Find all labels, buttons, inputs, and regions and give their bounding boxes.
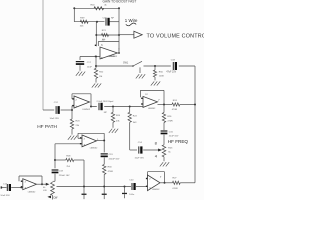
- svg-text:100n: 100n: [129, 194, 135, 196]
- svg-text:22uF 16V: 22uF 16V: [169, 136, 179, 138]
- svg-text:HF FREQ: HF FREQ: [168, 139, 189, 144]
- svg-text:1 Wire: 1 Wire: [125, 18, 138, 23]
- svg-text:LM4562: LM4562: [109, 56, 117, 58]
- svg-text:LM4562: LM4562: [148, 108, 156, 110]
- svg-text:10uF 35V: 10uF 35V: [50, 118, 60, 120]
- svg-text:470R: 470R: [172, 109, 178, 111]
- svg-text:LM4562: LM4562: [28, 192, 36, 194]
- svg-text:HF PATH: HF PATH: [37, 124, 57, 130]
- svg-text:220uF 16V: 220uF 16V: [59, 175, 70, 177]
- svg-text:LM4562: LM4562: [82, 109, 90, 111]
- svg-text:100K: 100K: [159, 75, 165, 77]
- svg-text:LIN: LIN: [43, 190, 47, 192]
- svg-text:CW: CW: [53, 196, 58, 199]
- svg-text:GAIN TO BOOST FAST: GAIN TO BOOST FAST: [103, 0, 137, 3]
- svg-text:LM4562: LM4562: [90, 148, 98, 150]
- svg-text:10uF: 10uF: [87, 67, 93, 69]
- svg-text:47uF 25V: 47uF 25V: [166, 72, 176, 74]
- svg-text:220uF 16V: 220uF 16V: [109, 158, 120, 160]
- svg-text:470R: 470R: [172, 188, 178, 190]
- svg-text:LM4562: LM4562: [152, 189, 160, 191]
- svg-text:1M: 1M: [99, 76, 102, 78]
- svg-text:10uF 35V: 10uF 35V: [0, 195, 10, 197]
- svg-text:SW1: SW1: [123, 62, 129, 65]
- svg-text:TO VOLUME CONTROL: TO VOLUME CONTROL: [147, 34, 205, 40]
- svg-text:NP: NP: [104, 112, 108, 114]
- svg-text:NP: NP: [111, 18, 115, 20]
- svg-text:470R: 470R: [108, 171, 114, 173]
- svg-text:10uF 35V: 10uF 35V: [135, 158, 145, 160]
- svg-text:470R: 470R: [167, 121, 173, 123]
